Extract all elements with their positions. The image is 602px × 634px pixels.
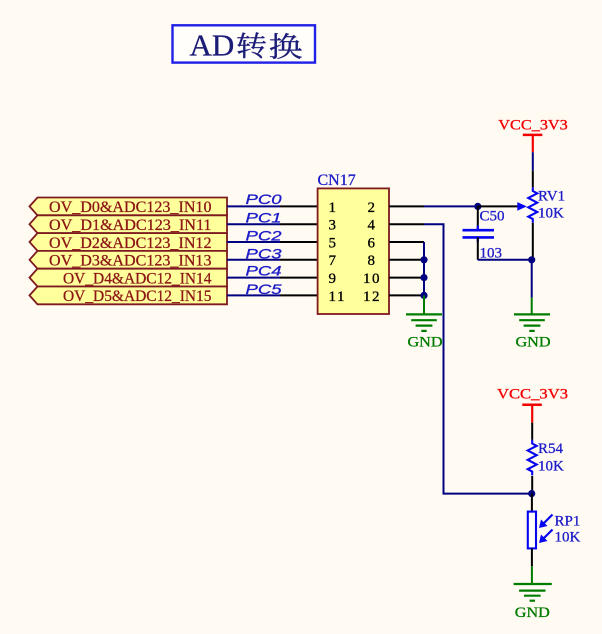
pin 3 of CN17 [280, 223, 318, 225]
pin number 9 [329, 271, 338, 287]
svg-text:PC1: PC1 [246, 210, 282, 226]
svg-text:10K: 10K [538, 458, 564, 474]
wire gnd bus vertical from pin6 down [423, 242, 425, 297]
pin number 3 [329, 218, 338, 234]
net label PC1 [246, 210, 282, 226]
designator RP1 [555, 513, 581, 529]
RP1 arrows [539, 515, 553, 544]
wire PC3 from port to CN17 pin [227, 259, 280, 261]
junction [420, 274, 427, 281]
svg-text:11: 11 [329, 289, 346, 305]
svg-text:GND: GND [516, 334, 551, 350]
pin 12 of CN17 [389, 294, 424, 296]
power VCC_3V3 (top) [498, 117, 568, 152]
svg-text:9: 9 [329, 271, 338, 287]
svg-text:12: 12 [363, 289, 381, 305]
svg-text:OV_D0&ADC123_IN10: OV_D0&ADC123_IN10 [49, 198, 212, 216]
svg-text:OV_D1&ADC123_IN11: OV_D1&ADC123_IN11 [49, 216, 212, 234]
net label PC3 [246, 245, 282, 261]
photoresistor RP1 body [528, 512, 536, 549]
designator C50 [480, 208, 505, 224]
svg-text:10: 10 [363, 271, 381, 287]
net label PC0 [246, 191, 282, 207]
C50 top pin [477, 206, 479, 230]
designator R54 [538, 441, 564, 457]
connector CN17 body [318, 188, 389, 314]
pin 4 of CN17 [389, 223, 424, 225]
value 103 [480, 245, 503, 261]
svg-text:CN17: CN17 [318, 172, 356, 189]
junction at C50 branch [474, 203, 481, 210]
svg-text:PC0: PC0 [246, 191, 282, 207]
C50 bottom pin [477, 237, 479, 259]
wire RV1 bottom to ground [531, 260, 533, 298]
pin number 4 [368, 218, 377, 234]
svg-text:OV_D4&ADC12_IN14: OV_D4&ADC12_IN14 [63, 269, 212, 287]
pin 7 of CN17 [280, 259, 318, 261]
svg-text:PC3: PC3 [246, 245, 282, 261]
pin number 8 [368, 253, 377, 269]
pin 9 of CN17 [280, 277, 318, 279]
pin 10 of CN17 [389, 277, 424, 279]
wire pin4 to lower node [424, 224, 532, 493]
designator CN17 [318, 172, 356, 189]
svg-text:3: 3 [329, 218, 338, 234]
RV1 wiper arrow [517, 202, 527, 211]
wire pin2 to RV1 wiper [424, 205, 478, 207]
net label PC5 [246, 281, 282, 297]
port flag OV_D3&amp;ADC123_IN13 [30, 251, 228, 270]
R54 bottom pin [531, 476, 533, 494]
svg-text:7: 7 [329, 253, 338, 269]
svg-text:PC2: PC2 [246, 228, 282, 244]
pin number 1 [329, 200, 338, 216]
pin number 5 [329, 235, 338, 251]
pin number 6 [368, 235, 377, 251]
junction RV1 bottom [528, 256, 535, 263]
power VCC_3V3 (bottom) [497, 387, 568, 423]
wire PC5 from port to CN17 pin [227, 294, 280, 296]
title box AD转换 [173, 25, 316, 62]
svg-text:6: 6 [368, 235, 377, 251]
RV1 top pin [532, 152, 534, 187]
svg-text:GND: GND [515, 605, 550, 621]
R54 top pin [531, 423, 533, 440]
pin number 2 [368, 200, 377, 216]
pin 8 of CN17 [389, 259, 424, 261]
svg-text:10K: 10K [555, 530, 581, 546]
svg-text:AD: AD [190, 27, 235, 62]
pin number 11 [329, 289, 346, 305]
designator RV1 [538, 189, 565, 205]
svg-text:5: 5 [329, 235, 338, 251]
potentiometer RV1 zigzag [528, 187, 537, 222]
junction [420, 292, 427, 299]
net label PC2 [246, 228, 282, 244]
svg-text:1: 1 [329, 200, 338, 216]
RV1 wiper pin [478, 205, 518, 207]
port flag OV_D1&amp;ADC123_IN11 [30, 215, 228, 234]
wire C50 to RV1 bottom [478, 259, 532, 261]
wire PC1 from port to CN17 pin [227, 223, 280, 225]
port flag OV_D2&amp;ADC123_IN12 [30, 233, 228, 252]
ground GND below CN17 [406, 295, 443, 350]
svg-text:C50: C50 [480, 208, 505, 224]
pin 5 of CN17 [280, 241, 318, 243]
junction [420, 256, 427, 263]
pin 2 of CN17 [389, 205, 424, 207]
svg-text:RV1: RV1 [538, 189, 565, 205]
port flag OV_D5&amp;ADC12_IN15 [30, 287, 228, 306]
svg-text:2: 2 [368, 200, 377, 216]
svg-text:PC4: PC4 [246, 262, 282, 278]
port flag OV_D0&amp;ADC123_IN10 [30, 198, 228, 217]
RP1 top pin [531, 493, 533, 511]
svg-text:8: 8 [368, 253, 377, 269]
net label PC4 [246, 262, 282, 278]
RP1 bottom pin [531, 549, 533, 567]
svg-text:OV_D3&ADC123_IN13: OV_D3&ADC123_IN13 [49, 252, 212, 270]
svg-text:GND: GND [408, 334, 443, 350]
value 10K [538, 458, 564, 474]
svg-text:OV_D5&ADC12_IN15: OV_D5&ADC12_IN15 [63, 287, 212, 305]
pin number 10 [363, 271, 381, 287]
value 10K [555, 530, 581, 546]
pin number 12 [363, 289, 381, 305]
junction R54/RP1 node [528, 490, 535, 497]
port flag OV_D4&amp;ADC12_IN14 [30, 269, 228, 288]
svg-text:R54: R54 [538, 441, 564, 457]
svg-text:VCC_3V3: VCC_3V3 [498, 117, 568, 133]
svg-text:10K: 10K [538, 205, 564, 221]
ground GND below RP1 [514, 566, 552, 621]
wire PC2 from port to CN17 pin [227, 241, 280, 243]
svg-text:OV_D2&ADC123_IN12: OV_D2&ADC123_IN12 [49, 234, 212, 252]
svg-text:PC5: PC5 [246, 281, 282, 297]
pin 6 of CN17 [389, 241, 424, 243]
svg-text:VCC_3V3: VCC_3V3 [497, 387, 568, 403]
svg-text:4: 4 [368, 218, 377, 234]
wire PC4 from port to CN17 pin [227, 277, 280, 279]
RV1 bottom pin [532, 223, 534, 260]
pin number 7 [329, 253, 338, 269]
wire PC0 from port to CN17 pin [227, 205, 280, 207]
svg-text:RP1: RP1 [555, 513, 581, 529]
resistor R54 zigzag [528, 440, 537, 475]
value 10K [538, 205, 564, 221]
capacitor C50 plates [463, 226, 495, 243]
pin 1 of CN17 [280, 205, 318, 207]
ground GND below RV1 [514, 298, 551, 351]
pin 11 of CN17 [280, 294, 318, 296]
